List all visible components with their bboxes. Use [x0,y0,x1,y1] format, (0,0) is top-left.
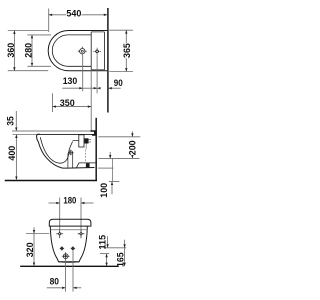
svg-text:350: 350 [60,98,75,109]
svg-text:365: 365 [122,43,133,58]
svg-text:200: 200 [127,140,138,155]
svg-text:400: 400 [7,146,18,161]
svg-text:130: 130 [63,76,78,87]
svg-text:320: 320 [25,243,36,258]
svg-text:90: 90 [114,78,123,89]
svg-text:115: 115 [97,234,108,249]
svg-text:80: 80 [50,276,59,287]
svg-text:540: 540 [66,9,81,20]
svg-text:360: 360 [6,43,17,58]
svg-text:165: 165 [116,252,127,267]
svg-text:280: 280 [23,43,34,58]
svg-text:100: 100 [99,183,110,198]
svg-text:180: 180 [63,196,76,207]
svg-text:35: 35 [6,116,17,126]
